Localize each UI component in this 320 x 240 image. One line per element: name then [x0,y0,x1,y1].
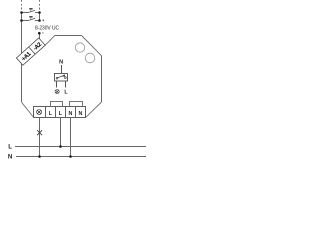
mounting hole (small circle) [85,53,95,63]
node: N junction [69,155,72,158]
svg-text:L: L [8,143,12,150]
device bottom-right diagonal [86,102,102,117]
wire: from supply minus down to -A2 [39,33,41,40]
node: L junction [59,145,62,148]
wire: L terminal to L rail [60,118,62,147]
label: supply voltage [35,25,59,31]
L rail [15,146,146,148]
terminal 1 (lamp output) [34,107,46,118]
wire: left pushbutton wire / device left edge [21,11,23,102]
label: plus polarity [42,19,44,21]
svg-text:N: N [59,59,63,65]
terminal 5 (N) [76,107,86,118]
pushbutton S2 blade [27,18,35,20]
terminal 2 (L) [46,107,56,118]
device bottom-left diagonal [22,102,34,117]
wire: right pushbutton wire dashed continuation [39,0,41,11]
label: lamp output symbol below left stub [55,90,59,94]
pushbutton S2 actuator [29,16,32,18]
wire: relay output stub right [65,81,67,87]
pushbutton S1 blade [27,10,35,12]
terminal 4 (N) [66,107,76,118]
wire: pushbutton S1 fixed segments [22,12,28,14]
node: S1 left junction [20,11,23,14]
svg-text:N: N [69,111,73,117]
relay K1 contact box [55,74,68,82]
pushbutton S1 actuator [29,8,32,10]
wire: N stub to relay [61,65,63,74]
wire: lamp wire from terminal 1 to N rail [39,118,41,157]
label: minus polarity [42,32,44,34]
device top-left chamfer (visible part) [45,36,54,46]
device top-left chamfer (hidden part under A1A2 label) [23,47,43,64]
mounting hole (big circle) [75,43,84,52]
label: terminal 1 lamp symbol [37,110,42,115]
device right edge [101,56,103,103]
node: S2 left junction [20,19,23,22]
terminal 3 (L) [56,107,66,118]
wire: N terminal to N rail [70,118,72,157]
node: supply minus terminal [38,32,41,35]
wire: pushbutton S2 fixed segments [22,20,28,22]
svg-text:8-230V UC: 8-230V UC [35,25,59,31]
wire: left pushbutton wire dashed continuation [21,0,23,11]
node: supply plus terminal [38,19,41,22]
device top-right diagonal [82,36,102,56]
svg-text:N: N [8,154,13,160]
wire: relay output stub left [56,81,58,87]
node: S1 right junction [38,11,41,14]
lamp E1 (cross on wire) [37,130,42,135]
jumper bridge L-L [51,102,63,107]
svg-text:N: N [79,111,83,117]
terminal block A1/A2 (rotated label box) [16,38,45,65]
N rail [16,156,146,158]
jumper bridge N-N [70,102,83,107]
node: N junction lamp wire [38,155,41,158]
relay contact symbol [56,76,66,79]
wire: right pushbutton wire [39,11,41,20]
device top edge [54,35,81,37]
